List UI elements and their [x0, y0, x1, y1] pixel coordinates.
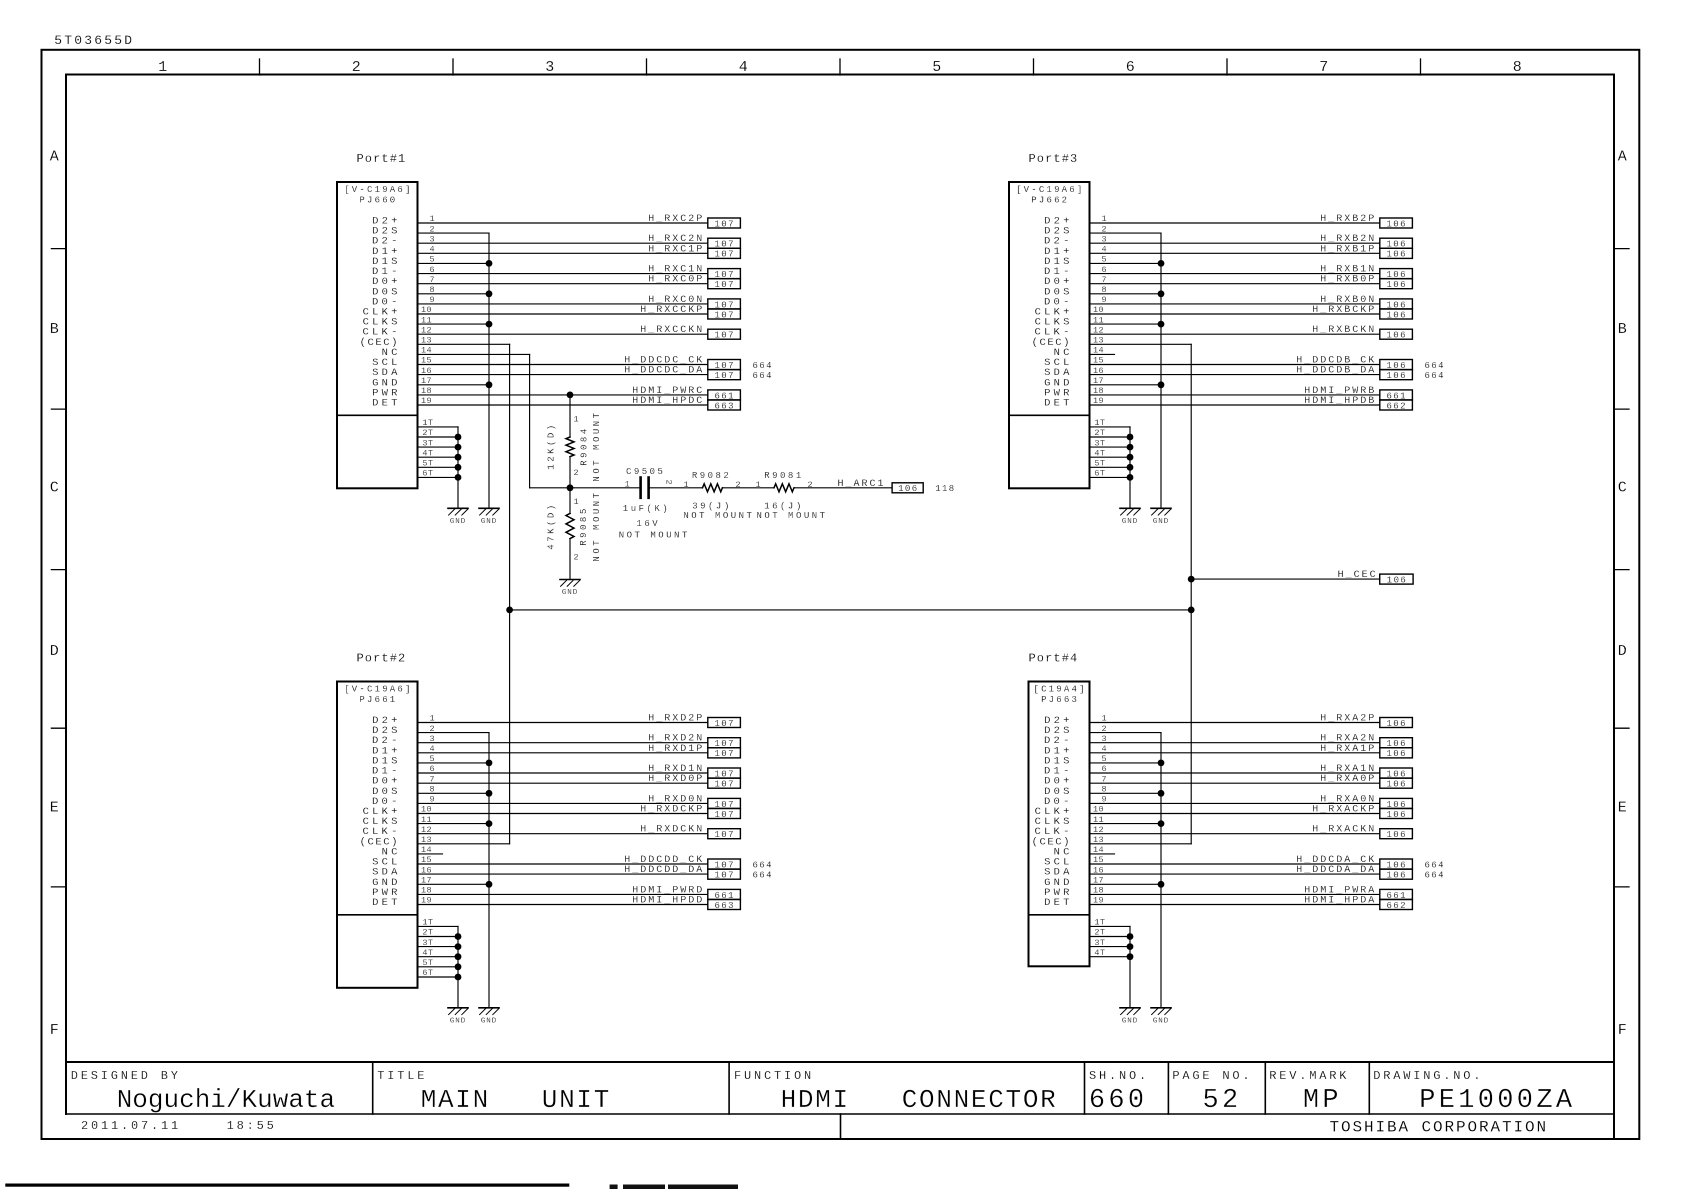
- svg-text:E: E: [1618, 800, 1627, 817]
- svg-text:5T03655D: 5T03655D: [54, 33, 134, 48]
- HDMI connector PJ663 (Port#4): [1029, 652, 1108, 967]
- svg-text:H_RXCCKP: H_RXCCKP: [640, 305, 704, 316]
- wire pin 8 shield to ground bus: [1090, 293, 1162, 295]
- svg-text:Port#1: Port#1: [357, 152, 407, 166]
- svg-text:664: 664: [1425, 860, 1445, 870]
- svg-text:DRAWING.NO.: DRAWING.NO.: [1373, 1069, 1483, 1083]
- svg-text:12K(D): 12K(D): [547, 422, 557, 469]
- svg-text:DET: DET: [372, 897, 401, 909]
- ground symbol (shield) PJ662: [1151, 508, 1171, 526]
- svg-text:HDMI_HPDD: HDMI_HPDD: [632, 896, 704, 907]
- svg-text:GND: GND: [1153, 518, 1169, 526]
- svg-text:DET: DET: [1044, 897, 1073, 909]
- svg-text:GND: GND: [450, 518, 466, 526]
- wire pin 13 (CEC): [418, 843, 510, 845]
- wire pin 15 net H_DDCDB_CK: [1090, 364, 1380, 366]
- ground symbol (shell) PJ660: [448, 508, 468, 526]
- net label H_RXD0N: [648, 794, 740, 809]
- wire pin 9 net H_RXD0N: [418, 802, 708, 804]
- wire pin 8 shield to ground bus: [1090, 792, 1162, 794]
- ground symbol (shield) PJ661: [479, 1008, 499, 1026]
- wire pin 18 net HDMI_PWRA: [1090, 893, 1380, 895]
- svg-text:H_RXD0P: H_RXD0P: [648, 774, 704, 785]
- ground symbol (shield) PJ660: [479, 508, 499, 526]
- svg-text:664: 664: [753, 860, 773, 870]
- svg-text:H_RXACKN: H_RXACKN: [1312, 825, 1376, 836]
- svg-text:663: 663: [714, 901, 734, 911]
- svg-text:106: 106: [1387, 576, 1407, 586]
- wire pin 1 net H_RXA2P: [1090, 722, 1380, 724]
- wire pin 11 shield to ground bus: [1090, 823, 1162, 825]
- wire pin 14 NC stub: [1090, 353, 1115, 355]
- HDMI connector PJ662 (Port#3): [1009, 152, 1107, 488]
- wire pin 1 net H_RXB2P: [1090, 222, 1380, 224]
- wire pin 5 shield to ground bus: [418, 262, 490, 264]
- wire pin 8 shield to ground bus: [418, 293, 490, 295]
- svg-text:PJ663: PJ663: [1041, 695, 1079, 705]
- svg-text:1: 1: [756, 480, 761, 490]
- net label HDMI_PWRA: [1304, 885, 1412, 900]
- wire pin 6 net H_RXD1N: [418, 772, 708, 774]
- svg-text:107: 107: [714, 250, 734, 260]
- svg-text:106: 106: [1386, 250, 1406, 260]
- net label H_DDCDC_CK: [624, 356, 773, 371]
- svg-text:MAIN UNIT: MAIN UNIT: [421, 1085, 611, 1115]
- wire pin 1 net H_RXC2P: [418, 222, 708, 224]
- svg-text:H_RXC0P: H_RXC0P: [648, 275, 704, 286]
- junction R9084/R9085 node: [567, 484, 574, 491]
- wire pin 16 net H_DDCDC_DA: [418, 374, 708, 376]
- wire pin 5 shield to ground bus: [1090, 762, 1162, 764]
- wire pin 14 NC to ARC network: [418, 353, 530, 355]
- wire pin 3 net H_RXB2N: [1090, 242, 1380, 244]
- svg-text:39(J): 39(J): [692, 501, 732, 511]
- wire pin 6 net H_RXC1N: [418, 273, 708, 275]
- svg-text:18:55: 18:55: [227, 1119, 277, 1133]
- svg-text:107: 107: [714, 331, 734, 341]
- wire pin 14 NC stub: [1090, 853, 1115, 855]
- wire pin 7 net H_RXD0P: [418, 782, 708, 784]
- wire pin 1 net H_RXD2P: [418, 722, 708, 724]
- wire pin 19 net HDMI_HPDB: [1090, 404, 1380, 406]
- wire pin 10 net H_RXBCKP: [1090, 313, 1380, 315]
- wire pin 16 net H_DDCDD_DA: [418, 873, 708, 875]
- svg-text:107: 107: [714, 810, 734, 820]
- svg-text:H_RXBCKP: H_RXBCKP: [1312, 305, 1376, 316]
- wire pin 5 shield to ground bus: [418, 762, 490, 764]
- svg-text:H_ARC1: H_ARC1: [837, 479, 885, 490]
- wire pin 11 shield to ground bus: [418, 323, 490, 325]
- ground bus (shield pins) PJ661: [486, 733, 493, 1008]
- svg-text:MP: MP: [1303, 1086, 1342, 1116]
- net label H_RXA2P: [1320, 714, 1412, 729]
- svg-text:H_RXC2P: H_RXC2P: [648, 214, 704, 225]
- net label H_DDCDD_CK: [624, 855, 773, 870]
- svg-text:8: 8: [1513, 59, 1522, 76]
- svg-text:SH.NO.: SH.NO.: [1089, 1069, 1149, 1083]
- svg-text:106: 106: [1386, 371, 1406, 381]
- svg-text:107: 107: [714, 371, 734, 381]
- wire pin 19 net HDMI_HPDD: [418, 904, 708, 906]
- svg-text:GND: GND: [450, 1017, 466, 1025]
- net label H_RXD2N: [648, 734, 740, 749]
- svg-text:PJ660: PJ660: [359, 196, 397, 206]
- net label H_RXB0P: [1320, 275, 1412, 290]
- svg-text:[V-C19A6]: [V-C19A6]: [344, 185, 412, 195]
- svg-text:664: 664: [1425, 871, 1445, 881]
- wire pin 10 net H_RXCCKP: [418, 313, 708, 315]
- svg-text:664: 664: [753, 371, 773, 381]
- net label H_RXC0P: [648, 275, 740, 290]
- svg-text:H_RXD1P: H_RXD1P: [648, 744, 704, 755]
- svg-text:664: 664: [753, 361, 773, 371]
- wire pin 17 shield to ground bus: [1090, 883, 1162, 885]
- net label H_RXC2N: [648, 234, 740, 249]
- svg-text:1: 1: [625, 480, 630, 490]
- net label H_RXD1N: [648, 764, 740, 779]
- junction CEC right bus: [1188, 607, 1195, 614]
- svg-text:NOT MOUNT: NOT MOUNT: [683, 511, 754, 521]
- net label H_RXC1N: [648, 265, 740, 280]
- net label HDMI_HPDC: [632, 396, 740, 411]
- wire pin 18 net HDMI_PWRC: [418, 394, 708, 396]
- svg-text:HDMI_HPDB: HDMI_HPDB: [1304, 396, 1376, 407]
- net label H_DDCDA_CK: [1296, 855, 1445, 870]
- wire pin 15 net H_DDCDD_CK: [418, 863, 708, 865]
- svg-text:B: B: [50, 321, 59, 338]
- wire CEC vertical (PJ662 pin13 to PJ663 pin13): [1190, 344, 1192, 844]
- junction R9084 top on HDMI_PWRC: [567, 392, 574, 399]
- svg-text:664: 664: [1425, 361, 1445, 371]
- wire pin 12 net H_RXBCKN: [1090, 333, 1380, 335]
- wire pin 7 net H_RXC0P: [418, 283, 708, 285]
- wire pin 4 net H_RXA1P: [1090, 752, 1380, 754]
- svg-text:PE1000ZA: PE1000ZA: [1419, 1086, 1575, 1116]
- net label H_DDCDC_DA: [624, 366, 773, 381]
- svg-text:H_RXDCKP: H_RXDCKP: [640, 805, 704, 816]
- svg-text:[V-C19A6]: [V-C19A6]: [1016, 185, 1084, 195]
- svg-text:F: F: [1618, 1022, 1627, 1039]
- svg-text:47K(D): 47K(D): [547, 502, 557, 549]
- svg-text:PJ662: PJ662: [1031, 196, 1069, 206]
- HDMI connector PJ660 (Port#1): [337, 152, 435, 488]
- svg-text:Port#2: Port#2: [357, 652, 407, 666]
- svg-text:106: 106: [1386, 871, 1406, 881]
- wire pin 10 net H_RXACKP: [1090, 813, 1380, 815]
- net label H_DDCDD_DA: [624, 865, 773, 880]
- svg-text:C9505: C9505: [626, 467, 666, 477]
- svg-text:H_RXBCKN: H_RXBCKN: [1312, 325, 1376, 336]
- ground bus (shield pins) PJ662: [1158, 233, 1165, 508]
- shell tab pins 1T-6T PJ662: [1090, 427, 1134, 508]
- svg-text:106: 106: [1386, 280, 1406, 290]
- wire pin 6 net H_RXB1N: [1090, 273, 1380, 275]
- net label H_RXC0N: [648, 295, 740, 310]
- wire pin 18 net HDMI_PWRD: [418, 893, 708, 895]
- ground symbol R9085: [560, 580, 580, 598]
- wire pin 5 shield to ground bus: [1090, 262, 1162, 264]
- svg-text:107: 107: [714, 749, 734, 759]
- wire pin 13 (CEC): [1090, 343, 1192, 345]
- wire pin 19 net HDMI_HPDC: [418, 404, 708, 406]
- wire H_CEC branch: [1191, 578, 1380, 580]
- wire pin 2 shield to ground bus: [1090, 232, 1162, 234]
- svg-text:TOSHIBA CORPORATION: TOSHIBA CORPORATION: [1330, 1119, 1549, 1137]
- svg-text:662: 662: [1386, 401, 1406, 411]
- svg-text:NOT MOUNT: NOT MOUNT: [592, 490, 602, 561]
- wire pin 13 (CEC): [418, 343, 510, 345]
- svg-text:662: 662: [1386, 901, 1406, 911]
- shell tab pins 1T-6T PJ661: [418, 926, 462, 1007]
- net label HDMI_HPDB: [1304, 396, 1412, 411]
- shell tab pins 1T-4T PJ663: [1090, 926, 1134, 1007]
- svg-text:A: A: [1618, 149, 1627, 166]
- net label HDMI_PWRC: [632, 386, 740, 401]
- wire pin 15 net H_DDCDA_CK: [1090, 863, 1380, 865]
- svg-text:DET: DET: [372, 398, 401, 410]
- wire ARC node horizontal: [530, 487, 641, 489]
- wire pin 15 net H_DDCDC_CK: [418, 364, 708, 366]
- net label HDMI_PWRD: [632, 885, 740, 900]
- svg-text:H_RXDCKN: H_RXDCKN: [640, 825, 704, 836]
- svg-text:NOT MOUNT: NOT MOUNT: [619, 531, 690, 541]
- resistor R9085 47K(D) NOT MOUNT: [547, 488, 603, 580]
- wire pin 6 net H_RXA1N: [1090, 772, 1380, 774]
- net label H_RXD2P: [648, 714, 740, 729]
- svg-text:C: C: [50, 480, 59, 497]
- footer bar: [5, 1184, 569, 1187]
- HDMI connector PJ661 (Port#2): [337, 652, 435, 988]
- svg-text:664: 664: [753, 871, 773, 881]
- svg-text:D: D: [50, 643, 59, 660]
- svg-text:3: 3: [545, 59, 554, 76]
- junction H_CEC branch: [1188, 576, 1195, 583]
- svg-text:106: 106: [1386, 719, 1406, 729]
- svg-text:R9081: R9081: [764, 471, 804, 481]
- net label H_DDCDA_DA: [1296, 865, 1445, 880]
- net label H_RXA0N: [1320, 794, 1412, 809]
- shell tab pins 1T-6T PJ660: [418, 427, 462, 508]
- net label H_RXBCKP: [1312, 305, 1412, 320]
- net label H_RXA1P: [1320, 744, 1412, 759]
- svg-text:H_DDCDD_DA: H_DDCDD_DA: [624, 865, 704, 876]
- svg-text:GND: GND: [481, 518, 497, 526]
- net label H_RXCCKP: [640, 305, 740, 320]
- wire pin 7 net H_RXA0P: [1090, 782, 1380, 784]
- svg-text:16V: 16V: [636, 519, 660, 529]
- svg-text:PJ661: PJ661: [359, 695, 397, 705]
- ground symbol (shell) PJ661: [448, 1008, 468, 1026]
- svg-text:4: 4: [739, 59, 748, 76]
- svg-text:B: B: [1618, 321, 1627, 338]
- net label H_RXA0P: [1320, 774, 1412, 789]
- svg-text:106: 106: [898, 484, 918, 494]
- svg-text:D: D: [1618, 643, 1627, 660]
- svg-text:Port#4: Port#4: [1029, 652, 1079, 666]
- net label H_RXC2P: [648, 214, 740, 229]
- svg-text:GND: GND: [1153, 1017, 1169, 1025]
- wire pin 17 shield to ground bus: [1090, 384, 1162, 386]
- svg-text:R9085: R9085: [579, 506, 589, 546]
- net label H_RXB1N: [1320, 265, 1412, 280]
- wire pin 10 net H_RXDCKP: [418, 813, 708, 815]
- net label H_RXB2P: [1320, 214, 1412, 229]
- wire NC vertical (PJ660 pin14): [529, 354, 531, 487]
- wire pin 17 shield to ground bus: [418, 883, 490, 885]
- svg-text:NOT MOUNT: NOT MOUNT: [756, 511, 827, 521]
- wire R9081 to H_ARC1 ref: [794, 487, 892, 489]
- wire pin 9 net H_RXC0N: [418, 303, 708, 305]
- svg-text:16(J): 16(J): [764, 501, 804, 511]
- wire pin 18 net HDMI_PWRB: [1090, 394, 1380, 396]
- net label H_RXC1P: [648, 244, 740, 259]
- wire pin 12 net H_RXACKN: [1090, 833, 1380, 835]
- svg-text:FUNCTION: FUNCTION: [734, 1069, 814, 1083]
- svg-text:2011.07.11: 2011.07.11: [81, 1119, 181, 1133]
- svg-text:118: 118: [935, 484, 955, 494]
- svg-text:663: 663: [714, 401, 734, 411]
- svg-text:52: 52: [1202, 1086, 1241, 1116]
- wire pin 13 (CEC): [1090, 843, 1192, 845]
- svg-text:HDMI CONNECTOR: HDMI CONNECTOR: [781, 1085, 1058, 1115]
- svg-text:106: 106: [1386, 749, 1406, 759]
- net label H_RXACKP: [1312, 805, 1412, 820]
- net label H_RXDCKN: [640, 825, 740, 840]
- svg-text:DESIGNED BY: DESIGNED BY: [71, 1069, 181, 1083]
- svg-text:2: 2: [352, 59, 361, 76]
- wire pin 2 shield to ground bus: [418, 232, 490, 234]
- net label H_RXDCKP: [640, 805, 740, 820]
- wire pin 12 net H_RXDCKN: [418, 833, 708, 835]
- ground bus (shield pins) PJ660: [486, 233, 493, 508]
- capacitor C9505 1uF(K) 16V NOT MOUNT: [619, 467, 690, 541]
- svg-text:H_RXA0P: H_RXA0P: [1320, 774, 1376, 785]
- footer marks: [610, 1185, 738, 1190]
- svg-text:HDMI_HPDA: HDMI_HPDA: [1304, 896, 1376, 907]
- wire pin 9 net H_RXB0N: [1090, 303, 1380, 305]
- resistor R9082 39(J) NOT MOUNT: [683, 471, 754, 521]
- wire pin 9 net H_RXA0N: [1090, 802, 1380, 804]
- svg-text:106: 106: [1386, 830, 1406, 840]
- svg-text:E: E: [50, 800, 59, 817]
- wire pin 14 NC stub: [418, 853, 443, 855]
- wire pin 4 net H_RXD1P: [418, 752, 708, 754]
- svg-text:H_RXA1P: H_RXA1P: [1320, 744, 1376, 755]
- svg-text:106: 106: [1386, 310, 1406, 320]
- svg-text:H_RXB0P: H_RXB0P: [1320, 275, 1376, 286]
- svg-text:H_RXD2P: H_RXD2P: [648, 714, 704, 725]
- svg-text:HDMI_HPDC: HDMI_HPDC: [632, 396, 704, 407]
- svg-text:107: 107: [714, 280, 734, 290]
- svg-text:H_RXA2P: H_RXA2P: [1320, 714, 1376, 725]
- svg-text:H_RXACKP: H_RXACKP: [1312, 805, 1376, 816]
- svg-text:1: 1: [684, 480, 689, 490]
- resistor R9084 12K(D) NOT MOUNT: [547, 395, 603, 488]
- svg-text:6: 6: [1126, 59, 1135, 76]
- svg-text:F: F: [50, 1022, 59, 1039]
- title block labels: [71, 1069, 1484, 1083]
- net label H_DDCDB_CK: [1296, 356, 1445, 371]
- svg-text:H_DDCDC_DA: H_DDCDC_DA: [624, 366, 704, 377]
- net label HDMI_HPDA: [1304, 896, 1412, 911]
- svg-text:PAGE NO.: PAGE NO.: [1172, 1069, 1252, 1083]
- svg-text:H_RXC1P: H_RXC1P: [648, 244, 704, 255]
- svg-text:2: 2: [574, 468, 579, 478]
- svg-text:107: 107: [714, 871, 734, 881]
- ground symbol (shell) PJ662: [1120, 508, 1140, 526]
- svg-text:GND: GND: [1122, 1017, 1138, 1025]
- svg-text:107: 107: [714, 219, 734, 229]
- svg-text:H_RXCCKN: H_RXCCKN: [640, 325, 704, 336]
- wire R9082 to R9081: [722, 487, 774, 489]
- net label H_RXA1N: [1320, 764, 1412, 779]
- wire CEC horizontal bus: [510, 609, 1192, 611]
- svg-text:GND: GND: [1122, 518, 1138, 526]
- svg-text:H_DDCDA_DA: H_DDCDA_DA: [1296, 865, 1376, 876]
- svg-text:2: 2: [574, 553, 579, 563]
- junction CEC left: [506, 607, 513, 614]
- wire pin 2 shield to ground bus: [1090, 732, 1162, 734]
- svg-text:H_RXB2P: H_RXB2P: [1320, 214, 1376, 225]
- net label H_RXB0N: [1320, 295, 1412, 310]
- svg-text:REV.MARK: REV.MARK: [1269, 1069, 1349, 1083]
- svg-text:H_DDCDB_DA: H_DDCDB_DA: [1296, 366, 1376, 377]
- wire pin 4 net H_RXB1P: [1090, 252, 1380, 254]
- svg-text:664: 664: [1425, 371, 1445, 381]
- net label H_DDCDB_DA: [1296, 366, 1445, 381]
- net label HDMI_PWRB: [1304, 386, 1412, 401]
- wire pin 4 net H_RXC1P: [418, 252, 708, 254]
- svg-text:1: 1: [574, 497, 579, 507]
- wire pin 12 net H_RXCCKN: [418, 333, 708, 335]
- ground bus (shield pins) PJ663: [1158, 733, 1165, 1008]
- svg-text:106: 106: [1386, 331, 1406, 341]
- svg-text:DET: DET: [1044, 398, 1073, 410]
- svg-text:7: 7: [1319, 59, 1328, 76]
- wire pin 19 net HDMI_HPDA: [1090, 904, 1380, 906]
- svg-text:A: A: [50, 149, 59, 166]
- svg-text:[V-C19A6]: [V-C19A6]: [344, 685, 412, 695]
- net label HDMI_HPDD: [632, 896, 740, 911]
- svg-text:R9082: R9082: [692, 471, 732, 481]
- wire pin 11 shield to ground bus: [418, 823, 490, 825]
- resistor R9081 16(J) NOT MOUNT: [756, 471, 828, 521]
- wire pin 8 shield to ground bus: [418, 792, 490, 794]
- svg-text:H_CEC: H_CEC: [1338, 570, 1378, 581]
- net label H_CEC: [1338, 570, 1413, 585]
- svg-text:Port#3: Port#3: [1029, 152, 1079, 166]
- svg-text:106: 106: [1386, 810, 1406, 820]
- svg-text:2: 2: [664, 480, 674, 485]
- wire pin 16 net H_DDCDA_DA: [1090, 873, 1380, 875]
- net label H_RXBCKN: [1312, 325, 1412, 340]
- svg-text:107: 107: [714, 830, 734, 840]
- net label H_RXACKN: [1312, 825, 1412, 840]
- net label H_RXCCKN: [640, 325, 740, 340]
- svg-text:R9084: R9084: [580, 426, 590, 466]
- svg-text:107: 107: [714, 780, 734, 790]
- svg-text:C: C: [1618, 480, 1627, 497]
- title block: [66, 1062, 1614, 1139]
- svg-text:Noguchi/Kuwata: Noguchi/Kuwata: [117, 1085, 335, 1115]
- wire pin 2 shield to ground bus: [418, 732, 490, 734]
- net label H_RXA2N: [1320, 734, 1412, 749]
- svg-text:1uF(K): 1uF(K): [623, 504, 670, 514]
- svg-text:1: 1: [158, 59, 167, 76]
- svg-text:[C19A4]: [C19A4]: [1033, 685, 1086, 695]
- ground symbol (shield) PJ663: [1151, 1008, 1171, 1026]
- wire pin 3 net H_RXC2N: [418, 242, 708, 244]
